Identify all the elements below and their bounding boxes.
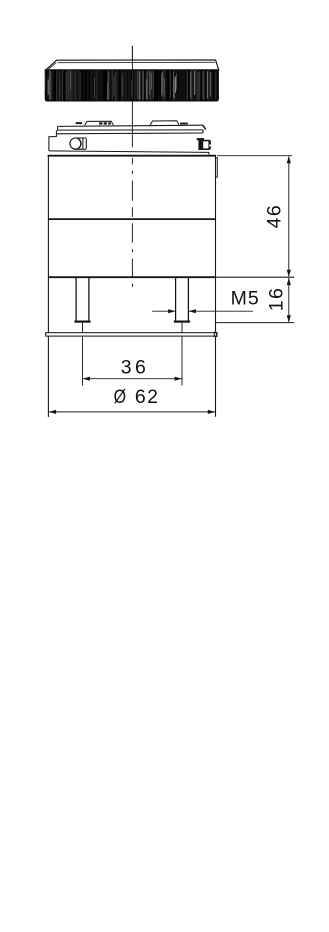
dimension 46/16: shared extension line (stud line extension) <box>216 276 295 278</box>
dimension M5: left leader with arrowhead <box>152 310 175 312</box>
bayonet pin boss: circle <box>70 138 81 149</box>
dimension 36: left arrowhead <box>83 377 90 381</box>
dimension 46: bottom arrowhead <box>287 270 291 277</box>
knurled cap: top chamfer band <box>46 60 219 70</box>
base plate <box>46 333 217 336</box>
adapter flange plate left end cap <box>57 126 59 130</box>
svg-text:46: 46 <box>263 204 285 229</box>
adapter flange plate line L1 <box>58 125 203 126</box>
latch clip: inner window <box>203 141 208 148</box>
adapter flange plate left end cap 2 <box>55 130 57 134</box>
flange top bump: teeth on plateau A <box>99 122 102 124</box>
dimension 16: bottom extension line <box>216 322 294 324</box>
mounting stud right axis / 36 extension line <box>181 323 183 386</box>
knurled cap: knurl texture stripes <box>46 70 217 101</box>
flange top bump: small filled bar left <box>76 122 82 124</box>
svg-text:62: 62 <box>135 386 160 408</box>
mounting stud right <box>176 278 189 321</box>
dimension 46: vertical dimension line <box>288 156 290 276</box>
svg-text:M5: M5 <box>231 288 260 310</box>
knurled cap: inner chamfer line <box>58 61 216 63</box>
latch clip: right notch <box>209 145 211 147</box>
flange top bump: small filled bar right <box>180 123 188 125</box>
dimension 36: dimension line <box>83 378 183 380</box>
latch clip: top-left arm <box>197 138 204 140</box>
dimension 36: right arrowhead <box>175 377 182 381</box>
dimension 46: top extension line <box>217 155 292 157</box>
dimension 16: bottom arrowhead <box>287 315 291 322</box>
knurled cap: center line crossing band <box>131 46 133 70</box>
knurled cap: inner left slant line <box>48 63 56 70</box>
adapter flange plate right end slant <box>203 125 206 129</box>
bayonet ring: left lip and edge <box>49 134 57 151</box>
body outline: left side (continues as diameter extension line) <box>47 155 49 417</box>
bayonet ring: bottom line <box>49 151 209 153</box>
mounting stud right foot <box>174 321 190 323</box>
dimension M5: right leader with arrowhead <box>189 310 253 312</box>
bayonet ring: bottom right drop <box>208 152 210 154</box>
right side tab <box>216 158 218 177</box>
dimension diameter 62: right arrowhead <box>208 410 215 414</box>
svg-text:16: 16 <box>265 287 287 312</box>
adapter flange plate line L2 <box>57 129 203 131</box>
body stud attachment line <box>48 276 215 278</box>
dimension 16: top arrowhead <box>287 278 291 285</box>
body outline: top edge <box>48 155 216 157</box>
body divider line <box>48 218 215 220</box>
dimension diameter 62: dimension line <box>49 411 216 413</box>
knurled cap: dark knurl body <box>45 70 218 101</box>
bayonet pin boss: side cylinder <box>76 138 87 149</box>
dimension diameter 62: left arrowhead <box>49 410 56 414</box>
base plate right end cap <box>214 332 217 336</box>
adapter flange plate right end cap <box>202 130 204 133</box>
svg-text:36: 36 <box>121 357 150 379</box>
flange top bump: plateau A outline <box>85 121 114 125</box>
adapter flange plate line L3 <box>56 132 202 135</box>
dimension 16: vertical dimension line <box>288 278 290 322</box>
body outline: right side (continues as diameter extension line) <box>215 155 217 416</box>
mounting stud left axis / 36 extension line <box>82 323 84 386</box>
mounting stud left foot <box>74 321 90 323</box>
bayonet pin boss: inner arc <box>78 139 80 148</box>
center line (vertical dash-dot axis) <box>131 46 133 287</box>
latch clip: body <box>198 140 211 150</box>
dimension 46: top arrowhead <box>287 156 291 163</box>
mounting stud left <box>76 278 89 321</box>
svg-text:Ø: Ø <box>114 386 126 408</box>
flange top bump: plateau B outline <box>150 121 179 125</box>
